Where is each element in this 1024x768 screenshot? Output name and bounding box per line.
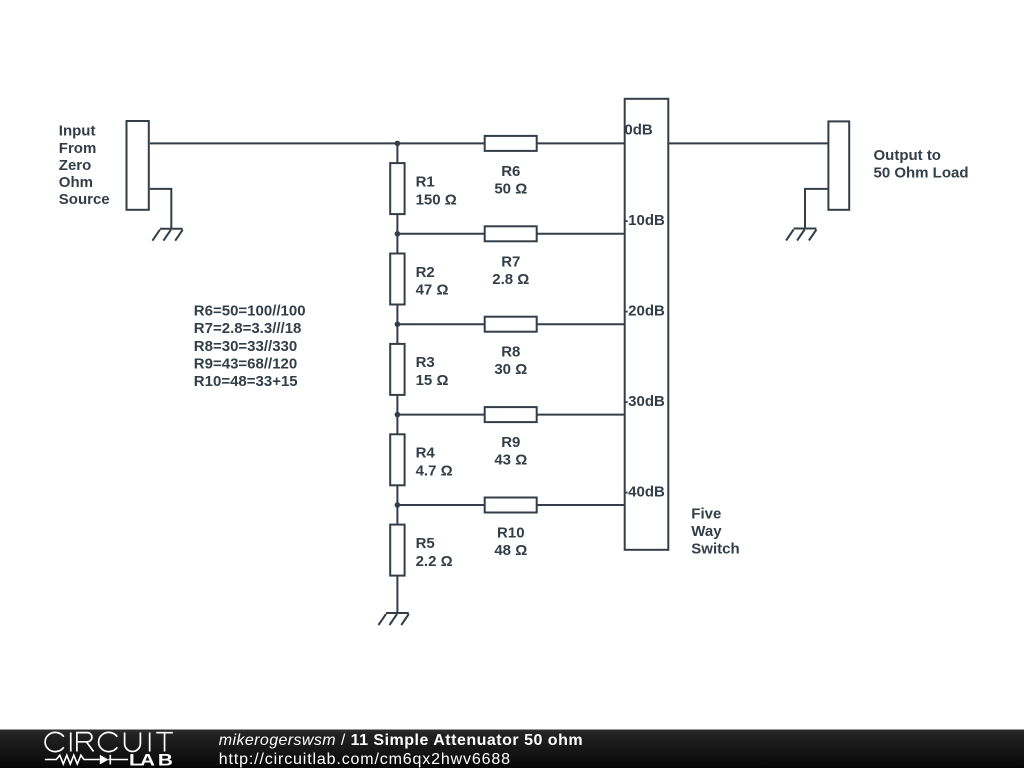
svg-text:Switch: Switch	[691, 541, 739, 558]
svg-text:30 Ω: 30 Ω	[494, 361, 527, 378]
wire: -10dB tap row	[397, 233, 624, 235]
svg-text:50 Ω: 50 Ω	[494, 180, 527, 197]
resistor R8	[485, 317, 537, 332]
label: R10 48 Ω	[494, 525, 527, 560]
port P1 input terminal	[127, 121, 149, 210]
svg-text:R7: R7	[501, 253, 520, 270]
svg-text:-10dB: -10dB	[623, 212, 665, 229]
resistor R7	[485, 226, 537, 241]
label: R1 150 Ω	[416, 173, 457, 208]
resistor R10	[485, 498, 537, 513]
svg-text:R2: R2	[416, 264, 435, 281]
resistor R2	[390, 254, 404, 305]
svg-text:50 Ohm Load: 50 Ohm Load	[874, 164, 969, 181]
label: R4 4.7 Ω	[416, 445, 453, 480]
svg-text:Output to: Output to	[874, 147, 941, 164]
wire: switch output to port P2	[668, 142, 828, 144]
svg-text:-40dB: -40dB	[623, 483, 665, 500]
svg-text:47 Ω: 47 Ω	[416, 282, 449, 299]
junction node B (-10dB tap)	[395, 231, 401, 237]
label: R6 50 Ω	[494, 163, 527, 198]
wire: -30dB tap row	[397, 414, 624, 416]
svg-text:48 Ω: 48 Ω	[494, 542, 527, 559]
junction node A (0dB tap)	[395, 141, 401, 147]
svg-text:Five: Five	[691, 506, 721, 523]
svg-text:R5: R5	[416, 535, 435, 552]
svg-text:R1: R1	[416, 173, 435, 190]
label: design equations note	[194, 303, 306, 390]
svg-text:43 Ω: 43 Ω	[494, 452, 527, 469]
wire: -20dB tap row	[397, 323, 624, 325]
label: Output to 50 Ohm Load	[874, 147, 969, 182]
svg-text:R9: R9	[501, 434, 520, 451]
label: Input From Zero Ohm Source	[59, 123, 110, 209]
port P2 output terminal	[828, 121, 849, 209]
svg-text:4.7 Ω: 4.7 Ω	[416, 463, 453, 480]
svg-text:-20dB: -20dB	[623, 303, 665, 320]
junction node E (-40dB tap)	[395, 502, 401, 508]
svg-text:2.2 Ω: 2.2 Ω	[416, 553, 453, 570]
resistor R9	[485, 407, 537, 422]
ground symbol (output)	[786, 229, 816, 241]
junction node C (-20dB tap)	[395, 321, 401, 327]
label: R2 47 Ω	[416, 264, 449, 299]
label: R9 43 Ω	[494, 434, 527, 469]
svg-text:Source: Source	[59, 191, 110, 208]
ground symbol (ladder bottom)	[379, 613, 409, 625]
wire: ladder vertical bus from node A down to ground	[396, 143, 398, 613]
resistor R3	[390, 344, 404, 395]
svg-text:2.8 Ω: 2.8 Ω	[492, 271, 529, 288]
svg-text:A: A	[140, 751, 155, 768]
label: R5 2.2 Ω	[416, 535, 453, 570]
svg-text:B: B	[158, 751, 173, 768]
label: Five Way Switch	[691, 506, 739, 558]
switch SW1 five-way body	[625, 99, 669, 550]
ground symbol (input)	[152, 229, 182, 241]
wire: -40dB tap row	[397, 504, 624, 506]
CircuitLab logo LAB text	[129, 751, 173, 768]
CircuitLab logo diode triangle	[100, 755, 109, 765]
svg-text:R4: R4	[416, 445, 436, 462]
label: R7 2.8 Ω	[492, 253, 529, 288]
svg-text:R10: R10	[497, 525, 525, 542]
wire: output port ground stub	[805, 189, 828, 229]
svg-text:R10=48=33+15: R10=48=33+15	[194, 373, 298, 390]
svg-text:0dB: 0dB	[624, 122, 653, 139]
svg-text:mikerogerswsm / 11 Simple Atte: mikerogerswsm / 11 Simple Attenuator 50 …	[219, 732, 583, 749]
svg-text:http://circuitlab.com/cm6qx2hw: http://circuitlab.com/cm6qx2hwv6688	[219, 751, 511, 768]
resistor R4	[390, 434, 404, 485]
svg-text:From: From	[59, 140, 97, 157]
svg-text:R6=50=100//100: R6=50=100//100	[194, 303, 306, 320]
svg-text:R6: R6	[501, 163, 520, 180]
resistor R5	[390, 525, 404, 576]
label: R3 15 Ω	[416, 354, 449, 389]
svg-text:Way: Way	[691, 523, 722, 540]
CircuitLab logo resistor-diode squiggle	[45, 755, 128, 765]
svg-text:R8=30=33//330: R8=30=33//330	[194, 338, 297, 355]
svg-text:15 Ω: 15 Ω	[416, 372, 449, 389]
CircuitLab logo wordmark CIRCUIT	[45, 732, 173, 751]
svg-text:R3: R3	[416, 354, 435, 371]
svg-text:-30dB: -30dB	[623, 393, 665, 410]
svg-text:Ohm: Ohm	[59, 174, 93, 191]
svg-text:150 Ω: 150 Ω	[416, 191, 457, 208]
svg-text:R8: R8	[501, 344, 520, 361]
svg-text:R7=2.8=3.3///18: R7=2.8=3.3///18	[194, 320, 302, 337]
svg-text:Zero: Zero	[59, 157, 92, 174]
svg-text:R9=43=68//120: R9=43=68//120	[194, 355, 297, 372]
resistor R6	[485, 136, 537, 151]
resistor R1	[390, 163, 404, 214]
wire: main input rail at 0dB row (port P1 to switch)	[150, 142, 625, 144]
wire: input port ground stub	[150, 189, 172, 229]
junction node D (-30dB tap)	[395, 412, 401, 418]
svg-text:Input: Input	[59, 123, 96, 140]
label: R8 30 Ω	[494, 344, 527, 379]
